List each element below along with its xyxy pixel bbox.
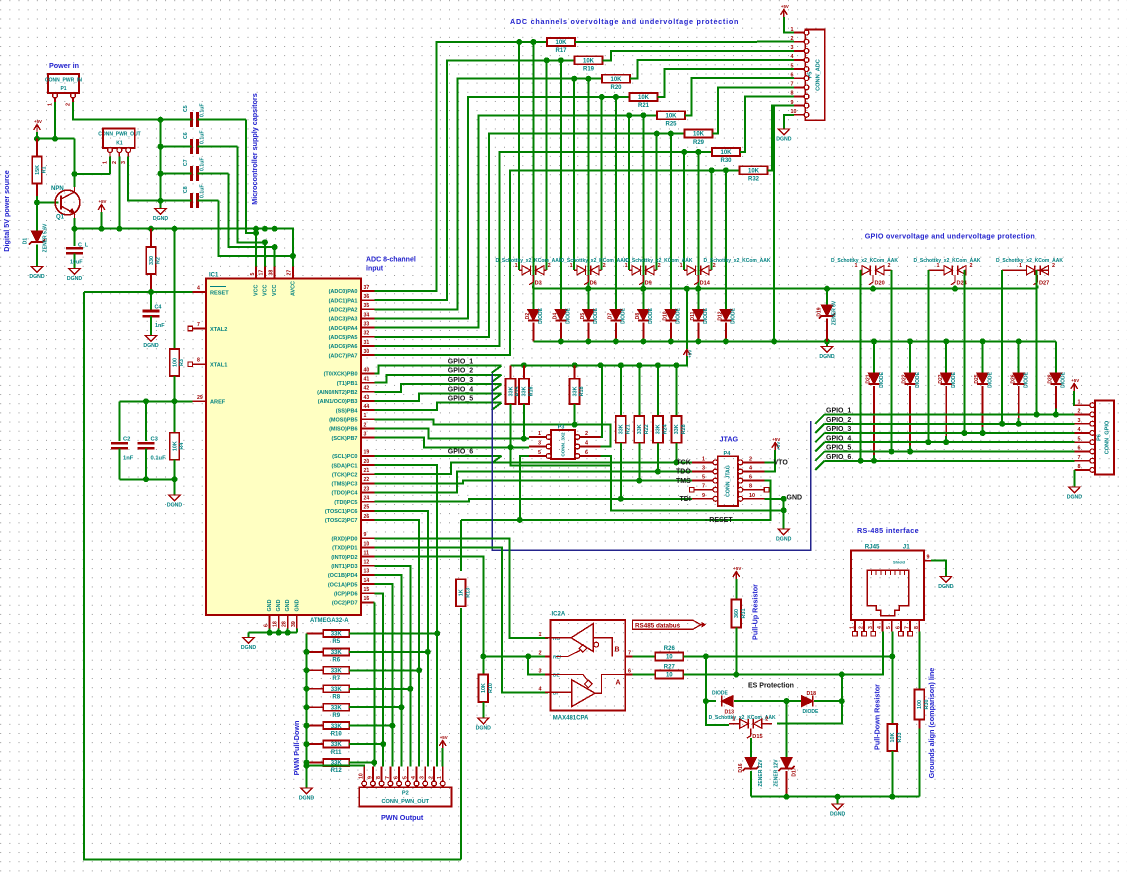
svg-text:GND: GND xyxy=(285,599,291,611)
svg-text:42: 42 xyxy=(364,386,370,392)
pin square RJ45 pin6 unconnected xyxy=(899,631,904,636)
svg-text:GPIO_3: GPIO_3 xyxy=(826,426,851,433)
svg-text:10K: 10K xyxy=(693,132,705,138)
svg-text:18: 18 xyxy=(273,621,279,627)
wire R32 to CONN_ADC pin 9 xyxy=(768,106,794,171)
svg-text:7: 7 xyxy=(1078,455,1081,461)
wire K1 pin1 xyxy=(109,157,111,175)
svg-text:NPN: NPN xyxy=(51,186,64,192)
wire diode column 4 xyxy=(642,115,644,309)
wire schottky tap column 2 xyxy=(573,79,575,271)
svg-text:D17: D17 xyxy=(792,767,798,776)
svg-text:CONN_JTAG: CONN_JTAG xyxy=(726,465,732,497)
svg-text:10K: 10K xyxy=(720,150,732,156)
svg-text:10K: 10K xyxy=(172,441,178,451)
svg-text:Pull-Down Resistor: Pull-Down Resistor xyxy=(873,684,882,750)
svg-text:40: 40 xyxy=(364,367,370,373)
svg-text:3: 3 xyxy=(1078,418,1081,424)
svg-text:GPIO_5: GPIO_5 xyxy=(448,396,473,403)
svg-text:2: 2 xyxy=(658,263,661,269)
connector P4 CONN_JTAG xyxy=(718,456,738,506)
diode D1 ZENER 5.6V xyxy=(36,203,38,232)
svg-text:2: 2 xyxy=(603,263,606,269)
svg-text:8: 8 xyxy=(376,776,382,779)
svg-text:D11: D11 xyxy=(690,311,696,320)
svg-text:R11: R11 xyxy=(331,750,342,756)
wire IC ground bus xyxy=(249,632,297,634)
svg-text:+5V: +5V xyxy=(781,4,789,9)
svg-text:Digital 5V power source: Digital 5V power source xyxy=(2,170,11,251)
svg-text:10K: 10K xyxy=(748,168,760,174)
diode pair D24 schottky xyxy=(928,269,944,271)
svg-text:(ADC3)PA3: (ADC3)PA3 xyxy=(329,317,358,323)
svg-text:4: 4 xyxy=(877,626,883,629)
svg-text:1: 1 xyxy=(48,103,54,106)
wire schottky tap column 5 xyxy=(656,134,658,271)
svg-text:100: 100 xyxy=(172,358,178,367)
wire D15 center to D16 xyxy=(750,738,752,757)
svg-text:6: 6 xyxy=(585,450,588,456)
svg-text:ZENER 12V: ZENER 12V xyxy=(774,759,780,787)
svg-text:R1: R1 xyxy=(42,166,48,173)
wire TCK net PC2 to JTAG xyxy=(375,462,692,474)
svg-text:2: 2 xyxy=(539,650,542,656)
wire B net xyxy=(632,655,655,657)
wire PB5 to P3 pin4 xyxy=(375,419,611,446)
connector P5 CONN_ADC xyxy=(805,30,824,121)
ic IC2A MAX481CPA body xyxy=(551,620,626,711)
connector P3 CONN_3X2 xyxy=(551,430,575,459)
svg-text:AREF: AREF xyxy=(210,400,226,406)
wire B net right xyxy=(683,655,892,657)
svg-text:(SCL)PC0: (SCL)PC0 xyxy=(332,454,357,460)
svg-text:DGND: DGND xyxy=(476,726,492,732)
svg-text:12: 12 xyxy=(364,560,370,566)
svg-text:B: B xyxy=(615,647,620,654)
wire PB4 to GPIO_5 flag xyxy=(375,403,502,410)
svg-text:(AIN1/OC0)PB3: (AIN1/OC0)PB3 xyxy=(318,399,358,405)
svg-text:D8: D8 xyxy=(635,313,641,320)
svg-text:1: 1 xyxy=(539,632,542,638)
svg-text:Power in: Power in xyxy=(49,61,79,70)
svg-text:GPIO_6: GPIO_6 xyxy=(448,449,473,456)
svg-text:33K: 33K xyxy=(331,687,343,693)
wire P6 pin8 to ground xyxy=(1073,470,1075,487)
svg-text:R6: R6 xyxy=(332,658,340,664)
svg-text:2: 2 xyxy=(364,422,367,428)
capacitor C2 1nF xyxy=(118,401,120,441)
svg-text:DIODE: DIODE xyxy=(621,307,627,324)
svg-text:33K: 33K xyxy=(637,424,643,434)
svg-text:7: 7 xyxy=(702,484,705,490)
svg-text:23: 23 xyxy=(364,486,370,492)
wire PA7 to ADC ladder xyxy=(375,170,740,355)
wire AREF net xyxy=(119,400,192,402)
svg-text:R33: R33 xyxy=(897,733,903,743)
ground DGND RJ45 shield xyxy=(940,577,951,583)
svg-text:2: 2 xyxy=(1078,409,1081,415)
diode D2 DIODE xyxy=(528,309,539,320)
svg-text:7: 7 xyxy=(197,322,200,328)
svg-text:20: 20 xyxy=(364,459,370,465)
wire PB0 to GPIO_1 flag xyxy=(375,366,502,374)
svg-text:10: 10 xyxy=(666,673,673,679)
wire C6 to VCC pin 17 xyxy=(237,147,265,243)
svg-text:- RESET: - RESET xyxy=(705,517,733,524)
svg-text:ZENER 5.6V: ZENER 5.6V xyxy=(43,223,49,252)
svg-text:15: 15 xyxy=(364,587,370,593)
svg-text:R28: R28 xyxy=(681,424,687,434)
svg-text:360: 360 xyxy=(734,609,740,618)
capacitor C8 0.1uF xyxy=(190,193,193,208)
svg-text:(ADC6)PA6: (ADC6)PA6 xyxy=(329,344,358,350)
ic IC2A driver triangle xyxy=(572,680,595,707)
svg-text:(T0/XCK)PB0: (T0/XCK)PB0 xyxy=(324,372,358,378)
wire R21 to CONN_ADC pin 5 xyxy=(658,69,794,97)
svg-text:2: 2 xyxy=(888,263,891,269)
svg-text:+5V: +5V xyxy=(1071,378,1079,383)
svg-text:DGND: DGND xyxy=(299,796,315,802)
svg-text:CONN_3X2: CONN_3X2 xyxy=(561,432,566,457)
wire diode column 6 xyxy=(697,152,699,309)
svg-text:GPIO overvoltage and undervolt: GPIO overvoltage and undervoltage protec… xyxy=(865,232,1035,241)
wire RJ45 pin5 to B net xyxy=(891,632,893,657)
wire PA6 to ADC ladder xyxy=(375,152,713,346)
frame blue JTAG outline xyxy=(492,374,811,551)
resistor R31 360 pull-up xyxy=(732,600,742,628)
svg-text:GPIO_6: GPIO_6 xyxy=(826,454,851,461)
svg-text:D2: D2 xyxy=(525,313,531,320)
svg-text:2: 2 xyxy=(585,431,588,437)
svg-text:33K: 33K xyxy=(522,386,528,396)
svg-text:DIODE: DIODE xyxy=(803,709,820,715)
svg-text:R21: R21 xyxy=(638,103,650,109)
svg-text:1: 1 xyxy=(437,776,443,779)
svg-text:4: 4 xyxy=(749,466,752,472)
svg-text:+5V: +5V xyxy=(776,441,781,450)
connector J1 RJ45 xyxy=(851,551,924,621)
wire RJ45 pin4 to A net xyxy=(882,632,884,634)
resistor R30 10K xyxy=(712,148,740,156)
svg-text:(TOSC1)PC6: (TOSC1)PC6 xyxy=(325,509,358,515)
svg-text:R10: R10 xyxy=(488,683,494,693)
wire R12 to pwm column xyxy=(349,762,374,764)
ground DGND JTAG xyxy=(778,529,789,535)
diode pair D20 schottky xyxy=(861,269,862,271)
wire K1 pin3 to cap rail xyxy=(128,157,160,201)
diode D19 ZENER 6V xyxy=(826,289,828,305)
pin square RJ45 pin1 unconnected xyxy=(853,631,858,636)
wire R17 to CONN_ADC pin 2 xyxy=(575,41,794,43)
svg-text:D12: D12 xyxy=(718,311,724,320)
pin square RJ45 pin7 unconnected xyxy=(908,631,913,636)
ground DGND AREF rail xyxy=(169,495,180,501)
wire node to K1 pin1 and Q1 collector xyxy=(75,139,111,174)
svg-text:2: 2 xyxy=(749,456,752,462)
wire C7 to VCC pin 38 xyxy=(229,174,275,248)
diode pair D14 schottky xyxy=(684,269,687,271)
wire VCC pin risers xyxy=(255,229,257,267)
svg-text:(ADC1)PA1: (ADC1)PA1 xyxy=(329,298,358,304)
svg-text:39: 39 xyxy=(291,621,297,627)
svg-text:35: 35 xyxy=(364,303,370,309)
svg-text:2: 2 xyxy=(970,263,973,269)
svg-text:GPIO_5: GPIO_5 xyxy=(826,445,851,452)
svg-text:4: 4 xyxy=(791,54,794,60)
wire diode column 1 xyxy=(560,60,562,309)
svg-text:GPIO_3: GPIO_3 xyxy=(448,377,473,384)
svg-text:4: 4 xyxy=(1078,427,1081,433)
wire PD4 staircase to PWM xyxy=(375,575,402,766)
svg-text:C2: C2 xyxy=(123,437,130,443)
wire diode column 7 xyxy=(725,170,727,309)
wire CONN_ADC pin9 to diode ground bus xyxy=(774,106,794,342)
svg-text:10K: 10K xyxy=(890,732,896,742)
wire D3 center to +5V line xyxy=(532,286,534,289)
svg-text:GND: GND xyxy=(276,599,282,611)
resistor R8 33K pwm pulldown xyxy=(307,688,324,690)
wire PD3 staircase to PWM xyxy=(375,566,411,767)
svg-text:16: 16 xyxy=(364,596,370,602)
svg-text:(TDO)PC4: (TDO)PC4 xyxy=(332,491,359,497)
ic IC2A pins xyxy=(545,637,551,639)
svg-text:ADC 8-channel: ADC 8-channel xyxy=(366,257,416,264)
svg-text:D_Schottky_x2_KCom_AAK: D_Schottky_x2_KCom_AAK xyxy=(496,258,563,264)
svg-text:D18: D18 xyxy=(807,691,817,697)
svg-text:3: 3 xyxy=(539,669,542,675)
svg-text:(ADC7)PA7: (ADC7)PA7 xyxy=(329,353,358,359)
ground DGND CONN_ADC xyxy=(778,129,789,135)
svg-text:8: 8 xyxy=(1078,464,1081,470)
wire diode column 2 xyxy=(587,79,589,310)
svg-text:3: 3 xyxy=(791,45,794,51)
wire PC1 staircase to PWM xyxy=(375,465,438,766)
svg-text:(TMS)PC3: (TMS)PC3 xyxy=(332,482,358,488)
connector P6 CONN_GPIO xyxy=(1095,401,1114,475)
svg-text:(MISO)PB6: (MISO)PB6 xyxy=(329,427,357,433)
resistor R2 330 xyxy=(150,229,152,247)
wire PA2 to ADC ladder xyxy=(375,79,603,310)
resistor R10b 10K to ground xyxy=(482,656,484,674)
svg-text:38: 38 xyxy=(268,270,274,276)
resistor R24 33K pull xyxy=(657,365,659,416)
svg-text:DGND: DGND xyxy=(776,137,792,143)
svg-text:2: 2 xyxy=(112,161,118,164)
svg-text:(OC2)PD7: (OC2)PD7 xyxy=(332,601,358,607)
svg-text:0.1uF: 0.1uF xyxy=(200,103,206,117)
svg-text:DGND: DGND xyxy=(776,537,792,543)
resistor R21 33K pull xyxy=(620,365,622,416)
svg-text:(ADC0)PA0: (ADC0)PA0 xyxy=(329,289,358,295)
svg-text:(TOSC2)PC7: (TOSC2)PC7 xyxy=(325,518,358,524)
svg-text:C6: C6 xyxy=(183,132,189,139)
svg-text:D26: D26 xyxy=(1010,374,1016,383)
svg-text:R5: R5 xyxy=(332,639,340,645)
label RS485 databus flag xyxy=(633,620,701,629)
svg-text:5: 5 xyxy=(402,776,408,779)
svg-text:33K: 33K xyxy=(656,424,662,434)
svg-text:2: 2 xyxy=(1052,263,1055,269)
wire RE DE tie xyxy=(528,656,548,674)
resistor R7 33K pwm pulldown xyxy=(307,669,324,671)
resistor R5 33K pwm pulldown xyxy=(307,632,324,634)
svg-text:R21: R21 xyxy=(625,424,631,434)
svg-text:0.1uF: 0.1uF xyxy=(200,157,206,171)
svg-text:J1: J1 xyxy=(903,543,910,550)
svg-text:5: 5 xyxy=(538,450,541,456)
wire R11 to pwm column xyxy=(349,743,383,745)
svg-text:2: 2 xyxy=(713,263,716,269)
diode pair D27 schottky xyxy=(1002,269,1026,271)
svg-text:43: 43 xyxy=(364,395,370,401)
wire PD6 staircase to PWM xyxy=(375,593,384,766)
svg-text:5: 5 xyxy=(702,475,705,481)
svg-text:24: 24 xyxy=(364,496,370,502)
svg-text:8: 8 xyxy=(749,484,752,490)
svg-text:33K: 33K xyxy=(331,724,343,730)
svg-text:37: 37 xyxy=(364,285,370,291)
svg-text:33K: 33K xyxy=(572,386,578,396)
svg-text:330: 330 xyxy=(149,256,155,265)
svg-text:D9: D9 xyxy=(645,281,652,287)
resistor R20 10K xyxy=(602,75,630,83)
svg-text:R8: R8 xyxy=(332,695,340,701)
svg-text:C4: C4 xyxy=(155,305,162,311)
svg-text:5: 5 xyxy=(791,63,794,69)
connector J1 RJ45 bottom pins xyxy=(854,620,856,632)
wire R29 to CONN_ADC pin 7 xyxy=(713,87,794,133)
diode D11 DIODE xyxy=(693,309,704,320)
pin square JTAG pin8 unconnected xyxy=(764,487,769,492)
wire R6 to pwm column xyxy=(349,651,428,653)
svg-text:ZENER 6V: ZENER 6V xyxy=(832,300,838,325)
ic U1 ATMEGA32-A body xyxy=(206,279,361,615)
svg-text:(SCK)PB7: (SCK)PB7 xyxy=(332,436,358,442)
wire aux row 465.6 to JTAG gnd link xyxy=(511,447,784,510)
svg-text:21: 21 xyxy=(364,468,370,474)
svg-text:4: 4 xyxy=(411,776,417,779)
wire PD2 to IC2A RE DE xyxy=(375,557,549,657)
wire P3 pin6 to gnd link xyxy=(600,456,611,466)
wire D9 center to +5V line xyxy=(642,286,644,289)
ground DGND below C4 xyxy=(145,336,156,342)
svg-text:VTO: VTO xyxy=(774,460,789,467)
svg-text:33K: 33K xyxy=(508,386,514,396)
wire schottky taps to GPIO rows xyxy=(860,270,862,461)
svg-text:10uF: 10uF xyxy=(70,260,83,266)
svg-text:D28: D28 xyxy=(1048,374,1054,383)
wire schottky tap column 0 xyxy=(518,42,520,270)
resistor R13 1K xyxy=(456,579,466,606)
svg-text:IC2A: IC2A xyxy=(552,612,566,618)
svg-text:XTAL2: XTAL2 xyxy=(210,327,227,333)
svg-text:2: 2 xyxy=(429,776,435,779)
wire P3 pin5 to RESET net xyxy=(520,456,529,520)
svg-text:K1: K1 xyxy=(116,140,123,146)
diode D28 DIODE xyxy=(1055,341,1057,373)
svg-text:IC1: IC1 xyxy=(209,273,219,279)
svg-text:(TCK)PC2: (TCK)PC2 xyxy=(332,472,358,478)
svg-text:(ADC5)PA5: (ADC5)PA5 xyxy=(329,335,358,341)
svg-text:CONN_ADC: CONN_ADC xyxy=(816,59,822,91)
svg-text:14: 14 xyxy=(364,578,370,584)
wire R8 to pwm column xyxy=(349,688,410,690)
svg-text:VCC: VCC xyxy=(254,285,260,296)
svg-text:D27: D27 xyxy=(1039,281,1049,287)
wire A net xyxy=(632,674,655,676)
ic right pins PA PB PC PD xyxy=(361,290,375,292)
svg-text:R13: R13 xyxy=(465,588,471,598)
diode D4 DIODE xyxy=(555,309,566,320)
svg-text:32: 32 xyxy=(364,331,370,337)
wire R30 to CONN_ADC pin 8 xyxy=(740,97,794,153)
connector P2 CONN_PWN_OUT xyxy=(359,787,451,806)
svg-text:DIODE: DIODE xyxy=(915,371,921,388)
svg-text:1: 1 xyxy=(625,263,628,269)
diode D8 DIODE xyxy=(638,309,649,320)
svg-text:8: 8 xyxy=(197,358,200,364)
svg-text:D15: D15 xyxy=(752,734,762,740)
svg-text:4: 4 xyxy=(585,441,588,447)
ground DGND below D19 xyxy=(821,347,832,353)
svg-text:6: 6 xyxy=(394,776,400,779)
resistor R27 10 xyxy=(655,671,683,679)
diode D21 DIODE xyxy=(873,341,875,373)
svg-text:9: 9 xyxy=(927,555,930,561)
svg-text:10K: 10K xyxy=(610,77,622,83)
svg-text:D10: D10 xyxy=(663,311,669,320)
resistor R11 33K pwm pulldown xyxy=(307,743,324,745)
wire AREF ground rail xyxy=(119,478,174,480)
svg-text:D22: D22 xyxy=(902,374,908,383)
svg-text:RE/: RE/ xyxy=(553,654,562,660)
svg-text:33K: 33K xyxy=(331,650,343,656)
svg-text:10K: 10K xyxy=(555,40,567,46)
wire PA1 to ADC ladder xyxy=(375,60,575,300)
svg-text:R31: R31 xyxy=(741,609,747,619)
diode D26 DIODE xyxy=(1018,341,1020,373)
pin square RJ45 pin2 unconnected xyxy=(862,631,867,636)
svg-text:19: 19 xyxy=(364,450,370,456)
svg-text:9: 9 xyxy=(702,493,705,499)
svg-text:A: A xyxy=(616,680,621,687)
svg-text:R12: R12 xyxy=(331,768,343,774)
svg-text:3: 3 xyxy=(420,776,426,779)
power +5V P2 pin1 xyxy=(439,741,446,746)
svg-text:P6: P6 xyxy=(1097,434,1103,441)
svg-text:5: 5 xyxy=(1078,436,1081,442)
svg-text:VCC: VCC xyxy=(262,285,268,296)
svg-text:R19: R19 xyxy=(583,67,595,73)
svg-text:R4: R4 xyxy=(179,443,185,450)
wire D27 center to +5V line xyxy=(1037,286,1039,289)
svg-text:Shield: Shield xyxy=(893,560,906,565)
connector P1 CONN_PWR_IN xyxy=(48,74,79,93)
svg-text:33K: 33K xyxy=(331,632,343,638)
wire P1 pin1 to node xyxy=(54,102,56,139)
svg-text:0.1uF: 0.1uF xyxy=(200,184,206,198)
svg-text:C3: C3 xyxy=(151,437,159,443)
ic top pins VCC VCC VCC AVCC xyxy=(255,267,257,279)
svg-text:(SS)PB4: (SS)PB4 xyxy=(336,408,359,414)
svg-text:1: 1 xyxy=(855,263,858,269)
svg-text:RO: RO xyxy=(553,636,560,642)
svg-text:D1: D1 xyxy=(23,238,29,245)
svg-text:+5V: +5V xyxy=(440,735,448,740)
svg-text:1: 1 xyxy=(849,626,855,629)
svg-text:33K: 33K xyxy=(331,742,343,748)
wire pwm pulldown rail xyxy=(306,633,308,765)
